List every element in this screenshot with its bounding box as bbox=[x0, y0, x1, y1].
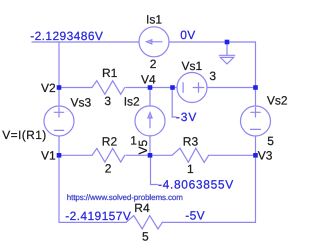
svg-text:V5: V5 bbox=[136, 139, 150, 154]
wire bottom left bbox=[59, 221, 126, 223]
wire row2 mid bbox=[126, 87, 177, 89]
voltage source Vs1 bbox=[177, 73, 207, 103]
wire row2 left bbox=[59, 87, 92, 89]
node V1 bbox=[57, 153, 62, 158]
wire right column lower bbox=[255, 136, 257, 222]
wire Is2 top bbox=[149, 88, 151, 106]
svg-text:V1: V1 bbox=[41, 149, 56, 163]
svg-text:Is1: Is1 bbox=[146, 13, 162, 27]
svg-text:5: 5 bbox=[267, 134, 274, 148]
wire row2 right bbox=[207, 87, 256, 89]
node V2 bbox=[57, 85, 62, 90]
svg-text:V2: V2 bbox=[41, 81, 56, 95]
resistor R4 bbox=[126, 216, 162, 229]
wire left column upper bbox=[58, 42, 60, 106]
resistor R3 bbox=[172, 148, 209, 162]
svg-text:Is2: Is2 bbox=[124, 95, 140, 109]
voltage source Vs2 bbox=[241, 106, 271, 136]
resistor R2 bbox=[92, 149, 125, 163]
wire stub -4.8V bbox=[151, 155, 158, 184]
svg-text:5: 5 bbox=[142, 229, 149, 243]
current source Is1 bbox=[139, 27, 169, 57]
svg-text:Vs2: Vs2 bbox=[267, 94, 288, 108]
current source Is2 bbox=[135, 106, 165, 136]
wire bottom right bbox=[162, 221, 255, 223]
node V3 bbox=[253, 153, 258, 158]
svg-text:3: 3 bbox=[209, 69, 216, 83]
svg-text:3: 3 bbox=[104, 94, 111, 108]
svg-text:2: 2 bbox=[105, 161, 112, 175]
svg-text:V4: V4 bbox=[141, 72, 156, 86]
svg-text:-3V: -3V bbox=[176, 110, 197, 124]
svg-text:2: 2 bbox=[150, 57, 157, 71]
wire right column upper bbox=[255, 42, 257, 106]
ground bbox=[226, 42, 228, 55]
svg-text:1: 1 bbox=[187, 162, 194, 176]
svg-text:V3: V3 bbox=[258, 149, 273, 163]
wire row3 left bbox=[59, 154, 92, 156]
wire top label underline bbox=[32, 41, 59, 43]
resistor R1 bbox=[92, 81, 125, 95]
svg-text:R1: R1 bbox=[102, 66, 118, 80]
node right junction bbox=[253, 85, 258, 90]
svg-text:Vs3: Vs3 bbox=[71, 96, 92, 110]
svg-text:R4: R4 bbox=[134, 201, 150, 215]
node ground junction bbox=[225, 40, 230, 45]
wire row3 right bbox=[209, 154, 256, 156]
svg-text:-5V: -5V bbox=[185, 209, 205, 223]
svg-text:0V: 0V bbox=[180, 28, 195, 42]
wire top right bbox=[169, 41, 256, 43]
svg-text:-4.8063855V: -4.8063855V bbox=[158, 177, 234, 191]
svg-text:-2.419157V: -2.419157V bbox=[65, 209, 131, 223]
node -3V junction bbox=[170, 85, 175, 90]
wire Is2 bottom bbox=[149, 136, 151, 155]
wire top left bbox=[59, 41, 139, 43]
svg-text:R3: R3 bbox=[183, 135, 199, 149]
svg-text:Vs1: Vs1 bbox=[182, 59, 203, 73]
node V5 junction bbox=[148, 153, 153, 158]
wire row3 mid bbox=[126, 154, 172, 156]
svg-text:-2.1293486V: -2.1293486V bbox=[30, 29, 103, 43]
svg-text:R2: R2 bbox=[102, 134, 118, 148]
svg-text:V=I(R1): V=I(R1) bbox=[2, 128, 46, 142]
node V4 bbox=[148, 85, 153, 90]
svg-text:https://www.solved-problems.co: https://www.solved-problems.com bbox=[67, 193, 183, 202]
wire stub -3V bbox=[172, 88, 176, 118]
wire left column lower bbox=[58, 136, 60, 222]
voltage source Vs3 bbox=[44, 106, 74, 136]
